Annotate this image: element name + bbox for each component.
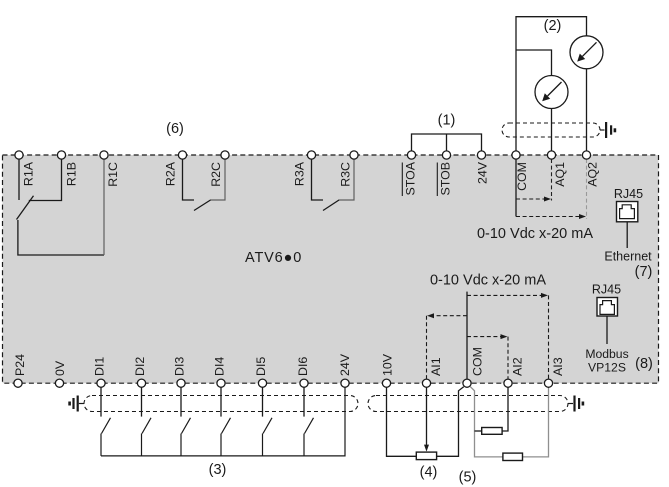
- ground top right: [600, 122, 616, 138]
- RJ45 Modbus port: [585, 283, 628, 375]
- svg-text:DI1: DI1: [93, 357, 107, 376]
- contact blade R3: [323, 200, 339, 211]
- svg-text:AQ1: AQ1: [553, 162, 567, 187]
- terminal AI1: [422, 357, 443, 387]
- terminal 10V: [381, 353, 395, 387]
- svg-text:AI3: AI3: [551, 357, 565, 376]
- svg-text:0-10 Vdc x-20 mA: 0-10 Vdc x-20 mA: [477, 226, 593, 242]
- svg-text:R3A: R3A: [293, 161, 307, 186]
- wire AI2: [502, 387, 508, 431]
- svg-text:(6): (6): [166, 121, 184, 137]
- svg-text:Ethernet: Ethernet: [604, 250, 652, 264]
- svg-text:STOA: STOA: [404, 161, 418, 195]
- relay R2 NO contact: [183, 159, 226, 211]
- cable shield top right: [502, 123, 600, 137]
- terminal 24V bottom: [338, 353, 352, 387]
- svg-text:DI6: DI6: [296, 357, 310, 376]
- RJ45 Ethernet port: [604, 187, 652, 264]
- svg-text:24V: 24V: [476, 161, 490, 184]
- svg-text:ATV6●0: ATV6●0: [245, 250, 302, 266]
- wire R3C down: [339, 159, 355, 200]
- terminal AI2: [504, 357, 525, 387]
- wire common bus to 24V: [101, 387, 345, 456]
- terminal DI2: [133, 357, 147, 388]
- svg-text:COM: COM: [471, 347, 485, 376]
- terminal AQ1: [547, 151, 567, 187]
- value label 0-10 Vdc x-20 mA (outputs): [477, 226, 593, 242]
- terminal COM top: [512, 151, 529, 191]
- terminal R1C: [100, 151, 120, 187]
- potentiometer body: [416, 452, 436, 460]
- svg-text:AQ2: AQ2: [586, 162, 600, 187]
- wire R1B down and left: [29, 159, 62, 201]
- svg-text:(7): (7): [635, 264, 653, 280]
- meter on AQ2: [570, 36, 603, 69]
- label (3): [209, 462, 227, 478]
- cable shield bottom left: [84, 396, 358, 412]
- wire DI2: [141, 387, 143, 417]
- wire R3A down: [312, 159, 324, 200]
- svg-text:AI1: AI1: [429, 357, 443, 376]
- svg-text:RJ45: RJ45: [614, 187, 643, 201]
- svg-text:(4): (4): [420, 465, 438, 481]
- wire AI3 dashed: [548, 295, 550, 379]
- svg-text:AI2: AI2: [511, 357, 525, 376]
- svg-text:(3): (3): [209, 462, 227, 478]
- svg-text:Modbus: Modbus: [585, 347, 628, 361]
- terminal 24V top: [476, 151, 490, 184]
- svg-text:DI5: DI5: [254, 357, 268, 376]
- arrow to AI1: [433, 315, 467, 317]
- svg-text:(1): (1): [438, 113, 456, 129]
- terminal R3C: [338, 151, 358, 187]
- svg-text:R3C: R3C: [338, 162, 352, 187]
- wire resistor AI2 to COM branch: [475, 430, 482, 432]
- svg-text:COM: COM: [515, 162, 529, 191]
- meter on AQ1: [535, 76, 568, 109]
- svg-text:R1A: R1A: [22, 161, 36, 186]
- resistor AI3: [503, 453, 523, 460]
- wire AI1 dashed: [426, 316, 428, 380]
- terminal DI3: [173, 357, 187, 388]
- terminal R2C: [209, 151, 229, 187]
- wire R1 pole down: [18, 220, 104, 255]
- label ATV6-0: [245, 250, 302, 266]
- label (2): [544, 18, 562, 34]
- label (4): [420, 465, 438, 481]
- label (8): [635, 356, 653, 372]
- wire pot to COM: [437, 387, 464, 457]
- arrow to AI3: [467, 294, 542, 296]
- analog input range arrows AI1/AI2/AI3: [427, 292, 549, 380]
- label (5): [459, 470, 477, 486]
- wire AI2 dashed: [507, 337, 509, 380]
- wire R1A down: [18, 159, 20, 200]
- value label 0-10 Vdc x-20 mA (inputs): [430, 273, 546, 289]
- wire COM gray branch: [470, 387, 548, 457]
- potentiometer (4) reference supply wiring: [387, 387, 464, 460]
- wire DI6: [303, 387, 305, 417]
- svg-text:STOB: STOB: [439, 162, 453, 196]
- cable shield bottom right: [368, 396, 568, 412]
- svg-text:VP12S: VP12S: [588, 361, 626, 375]
- wire COM bottom solid inside: [466, 292, 468, 380]
- ground bottom right: [568, 396, 584, 412]
- svg-text:DI4: DI4: [213, 357, 227, 376]
- relay R3 NO contact: [312, 159, 355, 211]
- bracket (1) over STOA STOB 24V: [412, 134, 482, 151]
- contact blade R2: [194, 200, 211, 211]
- wire DI3: [180, 387, 182, 417]
- arrow to AQ1: [516, 198, 545, 200]
- terminal DI1: [93, 357, 107, 388]
- terminal 0V: [53, 360, 67, 387]
- terminal DI5: [254, 357, 268, 388]
- svg-text:24V: 24V: [338, 353, 352, 376]
- terminal STOB: [437, 151, 452, 196]
- current input network (5): [470, 387, 548, 461]
- svg-text:DI3: DI3: [173, 357, 187, 376]
- terminal R3A: [293, 151, 316, 186]
- wire AI1 wiper: [426, 387, 428, 445]
- terminal DI6: [296, 357, 310, 388]
- wire DI1: [100, 387, 102, 417]
- terminal AQ2: [582, 151, 599, 187]
- terminal AI3: [544, 357, 565, 387]
- svg-text:(5): (5): [459, 470, 477, 486]
- terminal R1B: [57, 151, 78, 186]
- wire AQ1 dashed: [551, 159, 553, 201]
- wire AQ2 dashed: [586, 159, 588, 219]
- wire 10V: [387, 387, 417, 456]
- terminal STOA: [402, 151, 417, 196]
- wire R2C down: [210, 159, 225, 200]
- svg-text:R1C: R1C: [106, 162, 120, 187]
- ground bottom left: [68, 396, 84, 412]
- svg-text:0V: 0V: [53, 360, 67, 376]
- terminal COM bottom: [463, 347, 485, 387]
- wire COM to analog output meters: [516, 17, 587, 151]
- arrow to AI2: [467, 336, 502, 338]
- label (6): [166, 121, 184, 137]
- resistor AI2: [482, 428, 502, 435]
- label (1): [438, 113, 456, 129]
- svg-text:0-10 Vdc x-20 mA: 0-10 Vdc x-20 mA: [430, 273, 546, 289]
- drive body ATV6-0 dashed enclosure: [3, 155, 659, 383]
- svg-text:R1B: R1B: [64, 162, 78, 186]
- svg-text:R2C: R2C: [209, 162, 223, 187]
- svg-text:(8): (8): [635, 356, 653, 372]
- svg-text:P24: P24: [13, 354, 27, 376]
- svg-text:DI2: DI2: [133, 357, 147, 376]
- wire DI5: [262, 387, 264, 417]
- terminal R1A: [15, 151, 36, 186]
- relay R1 changeover contact: [17, 159, 105, 255]
- terminal DI4: [213, 357, 227, 388]
- arrow to AQ2: [516, 216, 580, 218]
- svg-text:(2): (2): [544, 18, 562, 34]
- terminal P24: [13, 354, 27, 387]
- digital input switches (3): [101, 387, 345, 456]
- label (7): [635, 264, 653, 280]
- svg-text:RJ45: RJ45: [592, 283, 621, 297]
- wire R1C down: [103, 159, 105, 255]
- svg-text:R2A: R2A: [164, 161, 178, 186]
- wire COM solid inside: [515, 159, 517, 217]
- wire DI4: [220, 387, 222, 417]
- svg-text:10V: 10V: [381, 353, 395, 376]
- terminal R2A: [164, 151, 187, 186]
- wire R2A down: [183, 159, 195, 200]
- analog output range arrows COM/AQ1/AQ2: [516, 159, 587, 219]
- contact blade R1: [17, 196, 34, 220]
